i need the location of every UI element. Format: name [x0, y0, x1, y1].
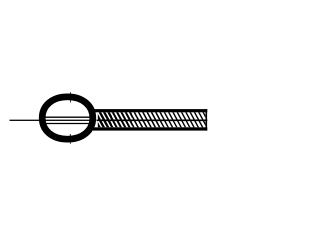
shank right end edge: [206, 109, 208, 131]
eye ring: [42, 97, 93, 139]
axis centerline: [10, 119, 97, 121]
thread hatch leftmost (extra bold): [85, 109, 222, 132]
thread hatch left (bold): [85, 109, 222, 132]
shank bottom border: [93, 127, 207, 130]
thread hatch right (fine): [85, 109, 222, 132]
top centerline tick: [70, 92, 72, 102]
shank middle line: [97, 120, 208, 122]
lower chord through eye: [45, 123, 91, 125]
bottom centerline tick: [69, 134, 71, 144]
shank top border: [93, 109, 207, 112]
upper chord through eye: [45, 116, 91, 118]
thread hatch middle: [85, 109, 222, 132]
